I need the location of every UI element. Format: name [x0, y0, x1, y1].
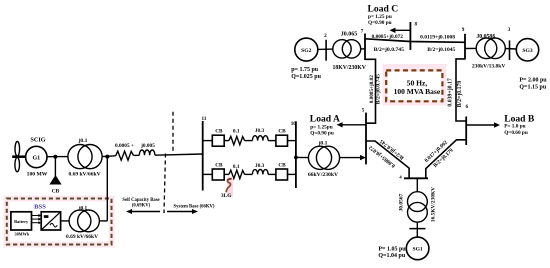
- svg-text:0.1: 0.1: [233, 164, 240, 170]
- svg-text:J0.3: J0.3: [255, 128, 265, 134]
- svg-text:SG3: SG3: [522, 48, 532, 54]
- svg-text:System Base (66KV): System Base (66KV): [174, 205, 215, 210]
- svg-text:8: 8: [415, 21, 418, 27]
- svg-text:p= 1.75 pu: p= 1.75 pu: [291, 67, 319, 73]
- svg-text:18KV/230KV: 18KV/230KV: [332, 65, 366, 71]
- svg-text:j0.1: j0.1: [78, 206, 88, 212]
- svg-text:B/2=j0.179: B/2=j0.179: [457, 81, 463, 108]
- svg-text:CB: CB: [278, 163, 286, 169]
- svg-text:SG1: SG1: [412, 247, 422, 253]
- svg-text:Battery: Battery: [14, 219, 29, 224]
- svg-text:0.0119+j0.1008: 0.0119+j0.1008: [420, 35, 455, 41]
- svg-text:0.0085+j0.02: 0.0085+j0.02: [369, 75, 375, 103]
- svg-text:6: 6: [466, 104, 469, 110]
- svg-text:16.5KV/230KV: 16.5KV/230KV: [431, 187, 437, 222]
- svg-text:CB: CB: [52, 188, 60, 194]
- svg-text:p= 1.25 pu: p= 1.25 pu: [368, 14, 392, 20]
- svg-text:3: 3: [508, 27, 511, 33]
- svg-text:0.69 kV/66kV: 0.69 kV/66kV: [68, 172, 100, 178]
- svg-text:0.039+j0.17: 0.039+j0.17: [447, 78, 453, 107]
- svg-text:Q=1.15 pu: Q=1.15 pu: [519, 85, 546, 91]
- svg-text:Q=1.04 pu: Q=1.04 pu: [378, 253, 405, 259]
- svg-text:5: 5: [362, 108, 365, 114]
- svg-text:Self Capacity Base: Self Capacity Base: [122, 198, 159, 203]
- svg-text:J0.0567: J0.0567: [399, 193, 405, 211]
- svg-text:j0.005: j0.005: [140, 143, 155, 149]
- svg-text:J0.0586: J0.0586: [476, 34, 495, 40]
- svg-text:CB: CB: [215, 163, 223, 169]
- svg-text:Q=1.025 pu: Q=1.025 pu: [291, 74, 321, 80]
- svg-text:66kV/230kV: 66kV/230kV: [308, 172, 339, 178]
- svg-text:230kV/13.8kV: 230kV/13.8kV: [472, 63, 505, 69]
- svg-text:j0.1: j0.1: [318, 140, 328, 146]
- svg-text:G1: G1: [32, 155, 40, 161]
- svg-text:P= 1.0 pu: P= 1.0 pu: [504, 124, 525, 130]
- svg-text:100 MVA Base: 100 MVA Base: [394, 87, 441, 96]
- svg-text:Q=0.90 pu: Q=0.90 pu: [310, 130, 334, 136]
- svg-text:B/2=j0.0.745: B/2=j0.0.745: [374, 47, 405, 53]
- svg-text:P= 1.05 pu: P= 1.05 pu: [378, 246, 406, 252]
- svg-text:Q=0.90 pu: Q=0.90 pu: [368, 20, 392, 26]
- svg-text:11: 11: [202, 116, 207, 122]
- svg-text:2: 2: [324, 33, 327, 39]
- svg-text:50 Hz,: 50 Hz,: [407, 78, 428, 87]
- svg-text:B/2=j0.0.745: B/2=j0.0.745: [375, 74, 381, 105]
- svg-text:BSS: BSS: [34, 204, 46, 211]
- svg-text:3LG: 3LG: [221, 193, 232, 199]
- svg-text:CB: CB: [278, 129, 286, 135]
- svg-text:0.69 kV/66kV: 0.69 kV/66kV: [66, 234, 98, 240]
- svg-text:j0.1: j0.1: [78, 138, 88, 144]
- svg-text:J0.3: J0.3: [255, 163, 265, 169]
- svg-text:(0.69KV): (0.69KV): [132, 203, 151, 208]
- svg-text:10: 10: [291, 121, 297, 127]
- svg-text:B/2=j0.1045: B/2=j0.1045: [427, 47, 455, 53]
- svg-text:SCIG: SCIG: [30, 137, 45, 144]
- svg-text:9: 9: [462, 27, 465, 33]
- svg-text:7: 7: [361, 29, 364, 35]
- svg-text:P= 2.00 pu: P= 2.00 pu: [519, 78, 547, 84]
- svg-text:0.0085+j0.072: 0.0085+j0.072: [372, 34, 404, 40]
- svg-text:SG2: SG2: [301, 48, 311, 54]
- svg-text:0.0005 +: 0.0005 +: [115, 143, 134, 149]
- svg-text:J0.065: J0.065: [341, 32, 358, 38]
- svg-text:0.1: 0.1: [233, 129, 240, 135]
- svg-text:Q=0.60 pu: Q=0.60 pu: [504, 130, 528, 136]
- svg-text:100 MW: 100 MW: [27, 172, 48, 178]
- svg-text:30MWh: 30MWh: [14, 231, 29, 236]
- svg-text:Load A: Load A: [310, 114, 340, 125]
- svg-text:CB: CB: [215, 129, 223, 135]
